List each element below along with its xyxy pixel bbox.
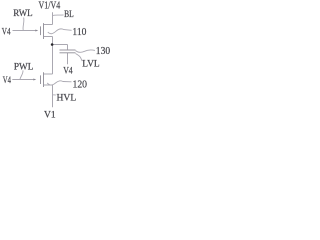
wire T110 source [44,36,53,38]
svg-text:110: 110 [72,26,86,38]
svg-text:LVL: LVL [82,59,100,69]
node A junction dot [51,43,54,46]
wire node A down to T120 drain [52,45,54,75]
capacitor 130 bottom plate [60,52,76,54]
svg-text:V4: V4 [63,67,73,77]
leader RWL [22,18,25,31]
wire capacitor bottom lead to V4 [67,53,69,65]
arrowhead on T110 gate [35,29,38,31]
leader 120 [47,81,71,85]
svg-text:PWL: PWL [14,62,34,72]
wire T110 source to node A [52,37,54,45]
svg-text:HVL: HVL [57,93,77,103]
wire BL vertical [52,12,54,24]
leader BL [53,14,64,17]
wire T120 drain [44,73,53,75]
leader LVL [76,54,83,62]
svg-text:BL: BL [64,9,74,20]
transistor 110 channel bar [43,23,45,39]
leader 130 [76,50,96,52]
wire T110 drain [44,24,53,26]
leader PWL [20,70,23,79]
transistor 120 channel bar [43,72,45,87]
svg-text:V4: V4 [3,76,11,86]
wire T120 source [44,84,53,86]
wire T120 gate [12,79,33,81]
svg-text:V4: V4 [2,27,11,37]
svg-text:120: 120 [73,78,88,90]
svg-text:V1/V4: V1/V4 [39,1,61,12]
svg-text:V1: V1 [44,110,56,120]
svg-text:130: 130 [96,45,111,57]
transistor 110 gate bar [40,26,42,35]
wire capacitor top lead [67,45,69,51]
wire node A to capacitor [53,44,68,46]
capacitor 130 top plate [60,49,76,51]
wire T120 source to V1 [52,85,54,107]
leader HVL [53,94,56,96]
transistor 120 gate bar [40,75,42,84]
arrowhead on T120 gate [33,78,36,80]
wire T110 gate [13,30,36,32]
svg-text:RWL: RWL [13,9,33,19]
leader 110 [48,29,72,34]
